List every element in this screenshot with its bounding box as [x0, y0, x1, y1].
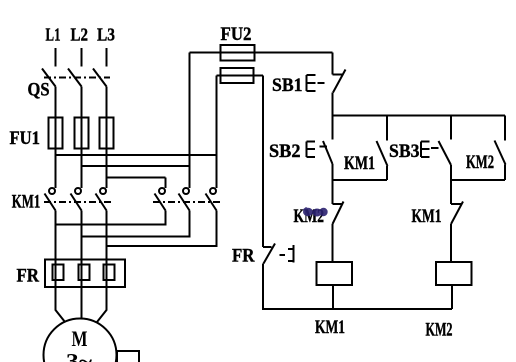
svg-text:SB2: SB2	[269, 141, 301, 162]
svg-text:FU1: FU1	[10, 128, 41, 149]
svg-text:KM1: KM1	[12, 192, 41, 213]
svg-text:SB1: SB1	[272, 75, 303, 96]
svg-text:KM2: KM2	[466, 152, 494, 173]
svg-text:L1: L1	[46, 25, 61, 45]
svg-text:FU2: FU2	[221, 24, 252, 45]
svg-text:FR: FR	[232, 246, 255, 267]
svg-text:KM2: KM2	[426, 320, 453, 341]
svg-text:M: M	[72, 326, 88, 351]
svg-text:QS: QS	[28, 80, 50, 101]
svg-text:L2: L2	[71, 25, 89, 45]
svg-text:KM1: KM1	[344, 153, 375, 174]
svg-text:SB3: SB3	[389, 141, 420, 162]
svg-text:KM1: KM1	[315, 317, 345, 338]
svg-text:KM1: KM1	[412, 206, 442, 227]
svg-text:3~: 3~	[66, 349, 93, 362]
svg-text:FR: FR	[17, 266, 40, 287]
svg-text:L3: L3	[97, 25, 115, 45]
